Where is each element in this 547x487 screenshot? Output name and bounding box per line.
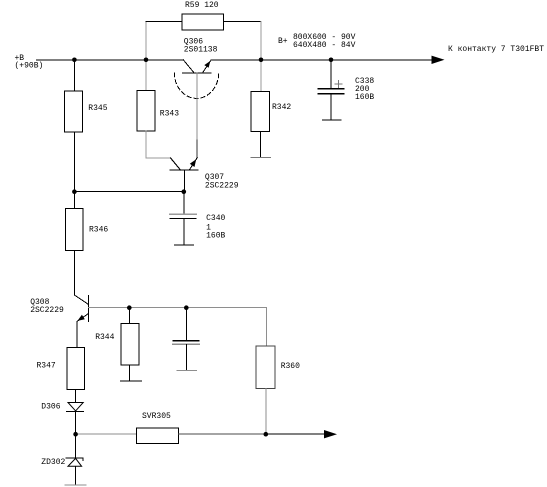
resistor R342 <box>260 60 262 92</box>
node junction dot at +B rail / R345 <box>72 58 77 63</box>
svg-text:(+90B): (+90B) <box>15 61 44 70</box>
ground bar below ZD302 <box>65 484 86 486</box>
arrow bottom output <box>324 430 337 438</box>
wire R59 left lead <box>145 22 147 60</box>
transistor Q306 <box>174 60 432 99</box>
resistor R346 <box>73 192 75 209</box>
resistor SVR305 <box>137 428 179 444</box>
svg-text:2SC2229: 2SC2229 <box>30 306 64 315</box>
resistor R347 <box>67 348 84 390</box>
svg-text:R360: R360 <box>281 362 300 371</box>
svg-text:160B: 160B <box>355 93 374 102</box>
capacitor C338 <box>330 60 332 89</box>
svg-text:2S01138: 2S01138 <box>184 45 218 54</box>
wire bottom rail left <box>76 433 137 435</box>
node +B label <box>15 54 44 71</box>
wire Q308 collector rail <box>89 307 267 309</box>
capacitor unlabeled (filter cap) <box>185 308 187 341</box>
node junction dot at top rail / R59 left / R343 <box>144 58 149 63</box>
svg-text:R59 120: R59 120 <box>185 1 219 10</box>
wire Q308 emitter to R347 <box>76 322 78 348</box>
node junction dot collector rail / R344 <box>127 305 132 310</box>
resistor R345 <box>73 60 75 91</box>
wire mid rail <box>74 191 183 193</box>
resistor R59 <box>182 14 224 30</box>
svg-text:R347: R347 <box>37 361 56 370</box>
svg-text:2SC2229: 2SC2229 <box>205 181 239 190</box>
svg-text:R342: R342 <box>272 103 291 112</box>
wire R59 right lead <box>224 21 262 23</box>
wire R343 to Q307 base <box>146 131 171 158</box>
resistor R343 <box>145 60 147 91</box>
svg-text:ZD302: ZD302 <box>41 458 65 467</box>
resistor R344 <box>128 308 130 324</box>
svg-text:R343: R343 <box>160 110 179 119</box>
wire Q306 base to Q307 emitter <box>196 73 198 140</box>
ground bar below filter cap <box>177 370 197 372</box>
node junction dot mid rail right / C340 <box>182 189 187 194</box>
node junction dot collector rail / cap <box>184 305 189 310</box>
svg-text:D306: D306 <box>41 403 60 412</box>
ground bar below R344 <box>121 380 142 382</box>
node junction dot bottom rail / R360 <box>264 432 269 437</box>
ground bar below R342 <box>251 157 271 159</box>
svg-text:C340: C340 <box>206 214 225 223</box>
wire bottom rail right <box>178 433 265 435</box>
diode D306 <box>68 403 83 411</box>
svg-text:SVR305: SVR305 <box>142 412 171 421</box>
wire top rail left segment (+B to Q306 collector) <box>37 59 184 61</box>
wire to bottom arrow <box>266 433 325 435</box>
transistor Q306 labels <box>184 37 218 54</box>
node label "К контакту 7 Т301FBT" <box>448 45 544 54</box>
svg-text:R344: R344 <box>95 333 114 342</box>
wire collector rail down to R360 <box>265 308 267 346</box>
ground bar below C340 <box>175 244 194 246</box>
node B+ labels <box>278 33 356 50</box>
svg-text:160B: 160B <box>206 232 225 241</box>
svg-text:К контакту 7 Т301FBT: К контакту 7 Т301FBT <box>448 45 544 54</box>
svg-text:640X480 - 84V: 640X480 - 84V <box>293 41 356 50</box>
node junction dot top rail / R342 <box>259 58 264 63</box>
node junction dot top rail / C338 <box>329 58 334 63</box>
node junction dot mid rail left <box>72 189 77 194</box>
resistor R360 <box>256 346 275 389</box>
svg-text:B+: B+ <box>278 37 288 46</box>
svg-text:R346: R346 <box>89 225 108 234</box>
transistor Q308 <box>30 298 64 315</box>
ground bar below C338 <box>323 119 342 121</box>
svg-text:R345: R345 <box>88 104 107 113</box>
node junction dot bottom rail left <box>73 432 78 437</box>
arrow output to FBT <box>432 56 445 64</box>
transistor Q307 <box>205 173 239 191</box>
capacitor C340 <box>183 192 185 215</box>
zener diode ZD302 <box>75 434 77 458</box>
